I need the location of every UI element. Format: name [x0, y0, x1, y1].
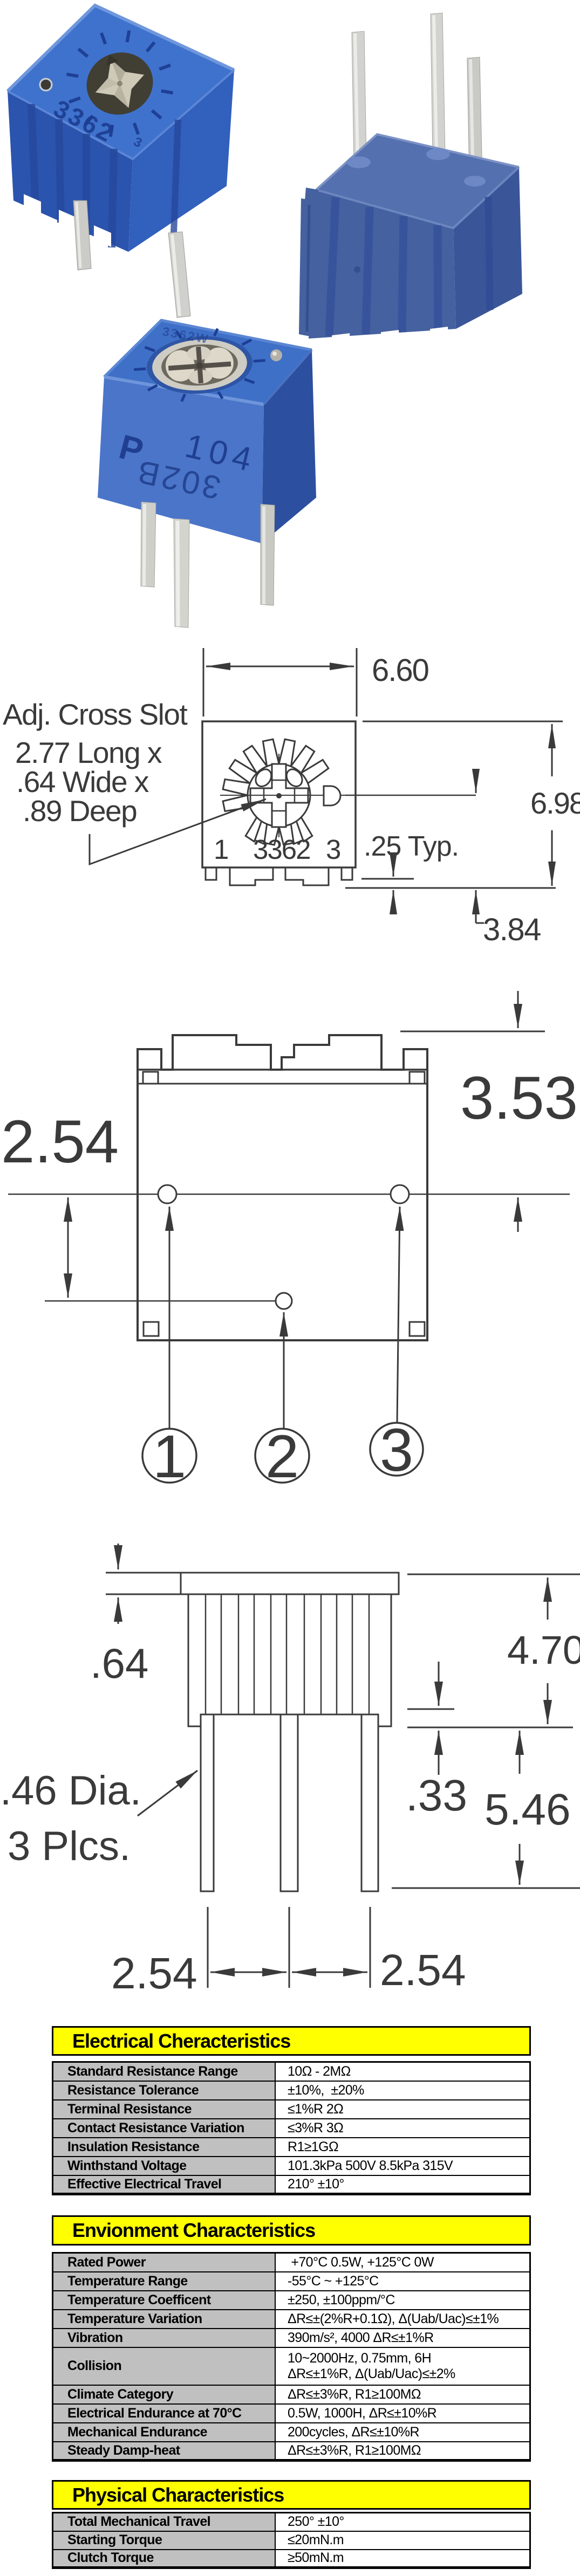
svg-text:4.70: 4.70 — [507, 1628, 580, 1672]
trimmer photo 3 pin 2 — [174, 519, 189, 628]
corner key top-left — [143, 1072, 158, 1084]
svg-text:.64 Wide x: .64 Wide x — [16, 765, 149, 798]
trimmer photo 1 pin right — [168, 232, 190, 318]
photo of three 3362 trimmer potentiometers — [0, 0, 580, 636]
trimmer photo 1 pilot hole — [41, 80, 51, 89]
pin hole 1 — [158, 1185, 176, 1203]
technical drawing: top view of 3362P trimmer — [0, 636, 580, 970]
svg-text:.89 Deep: .89 Deep — [23, 794, 137, 828]
trimmer photo 2 body — [309, 134, 522, 339]
body bottom reference — [407, 1727, 573, 1728]
trimmer photo 2 left edge tabs — [299, 188, 318, 338]
rotor center dot — [276, 793, 282, 798]
extension line right for 6.60 — [356, 648, 358, 717]
pointer down arrow — [475, 769, 477, 793]
leader from Adj. Cross Slot note — [90, 799, 266, 864]
corner key bottom-right — [410, 1322, 425, 1336]
table: Electrical Cheracteristics body — [52, 2061, 531, 2195]
trimmer photo 2 side ribs — [329, 197, 438, 336]
svg-text:.64: .64 — [90, 1640, 148, 1687]
.64 extension bottom — [106, 1594, 188, 1595]
ribs — [206, 1594, 369, 1714]
pin 1 — [201, 1714, 214, 1891]
top cap — [181, 1573, 399, 1594]
2.54 pitch arrows left — [210, 1972, 248, 1973]
leader pin 2 — [283, 1312, 285, 1429]
trimmer photo 3 body — [98, 320, 316, 543]
pin 2 — [281, 1714, 298, 1891]
table: Electrical Cheracteristics header — [52, 2026, 531, 2056]
balloon 1 — [142, 1429, 196, 1483]
rotor centerline vertical — [278, 754, 279, 837]
3.53 top arrow — [517, 991, 519, 1028]
svg-text:3 Plcs.: 3 Plcs. — [8, 1823, 131, 1869]
body with lip — [188, 1594, 391, 1726]
body outline with castellated top — [138, 1035, 427, 1340]
technical drawing: side view with pins — [0, 1531, 580, 2006]
svg-text:.33: .33 — [406, 1771, 467, 1820]
pin line lower — [45, 1300, 290, 1302]
trimmer photo 2 pins up — [352, 13, 482, 182]
trimmer photo 2 right-face groove — [488, 197, 490, 310]
pin bottom reference — [392, 1888, 580, 1889]
4.70 arrows — [547, 1578, 549, 1620]
leader pin 3 — [397, 1207, 400, 1422]
svg-text:3: 3 — [326, 834, 341, 865]
table: Physical Characteristics body — [52, 2512, 531, 2569]
table: Physical Characteristics header — [52, 2480, 531, 2510]
feet: right small foot — [342, 868, 352, 880]
leader pin 1 — [169, 1207, 170, 1429]
pin line upper — [8, 1194, 570, 1195]
svg-text:2.54: 2.54 — [1, 1108, 119, 1175]
rotor centerline horizontal — [220, 795, 476, 796]
feet: left wide foot — [230, 868, 273, 885]
balloon 3 — [370, 1423, 423, 1476]
balloon 2 — [255, 1429, 309, 1483]
extension line left for 6.60 — [203, 648, 204, 717]
rotor cross slot — [250, 764, 308, 827]
svg-text:2: 2 — [265, 1423, 299, 1490]
rotor ear right — [283, 766, 305, 789]
leader to pin 1 — [138, 1771, 197, 1816]
.25 arrows — [393, 862, 394, 877]
svg-text:.25 Typ.: .25 Typ. — [364, 831, 459, 862]
rib bottom reference — [407, 1709, 454, 1710]
.33 arrows — [438, 1662, 440, 1706]
rotor teeth — [223, 739, 329, 845]
pin pitch extension lines — [207, 1907, 209, 1988]
svg-text:1: 1 — [214, 834, 229, 865]
svg-text:6.98: 6.98 — [530, 786, 580, 820]
top extension line for 6.98 — [363, 721, 563, 722]
pin 3 — [361, 1714, 378, 1891]
2.54 vertical dimension arrows — [67, 1197, 69, 1247]
rotor ear left — [253, 766, 275, 789]
trimmer photo 3 metal ball — [270, 349, 282, 361]
wiper pointer cap — [324, 786, 340, 805]
trimmer photo 2 pin entry mounds — [347, 148, 486, 187]
trimmer photo 3 pin 3 — [261, 504, 275, 605]
6.98 dimension arrows — [551, 724, 553, 776]
svg-text:.46 Dia.: .46 Dia. — [0, 1768, 141, 1814]
trimmer photo 1 pin left — [73, 201, 91, 270]
trimmer photo 1 right-face groove — [174, 120, 178, 233]
pin hole 2 — [276, 1293, 292, 1309]
svg-text:1: 1 — [153, 1423, 186, 1490]
5.46 arrows — [519, 1731, 521, 1774]
rotor circle — [248, 764, 310, 826]
table: Envionment Characteristics body — [52, 2252, 531, 2462]
top extension line for 3.53 — [400, 1031, 545, 1032]
svg-text:3: 3 — [380, 1416, 413, 1484]
corner key bottom-left — [144, 1322, 159, 1336]
trimmer photo 1 rotor — [51, 15, 189, 153]
2.54 pitch arrows right — [292, 1972, 330, 1973]
svg-text:Adj. Cross Slot: Adj. Cross Slot — [3, 698, 187, 731]
pin hole 3 — [391, 1185, 409, 1203]
trimmer photo 2 bottom feet notches — [332, 327, 448, 344]
trimmer photo 1 bottom feet notches — [24, 194, 111, 247]
3.53 bottom arrow — [517, 1197, 519, 1232]
svg-text:3362: 3362 — [253, 834, 310, 865]
trimmer photo 3 rotor — [132, 326, 268, 405]
trimmer photo 2 mold dot — [354, 266, 360, 273]
seating plane line — [345, 887, 556, 889]
feet: right wide foot — [285, 868, 329, 885]
.64 extension top — [106, 1572, 181, 1574]
technical drawing: pin layout view — [0, 970, 580, 1504]
svg-text:2.54: 2.54 — [111, 1949, 197, 1998]
body top seam — [138, 1069, 427, 1071]
svg-text:2.54: 2.54 — [380, 1946, 466, 1995]
table: Envionment Characteristics header — [52, 2215, 531, 2246]
dimension line 6.60 — [206, 666, 280, 667]
cross slot hub ticks — [264, 780, 295, 811]
svg-text:6.60: 6.60 — [372, 653, 428, 688]
centerline across cross — [241, 795, 350, 796]
corner key top-right — [410, 1072, 425, 1084]
svg-text:3.53: 3.53 — [460, 1064, 578, 1132]
svg-text:3.84: 3.84 — [483, 912, 541, 947]
.64 arrows — [118, 1544, 119, 1569]
pointer reference line — [345, 795, 476, 796]
3.84 elbow and arrow — [475, 890, 477, 923]
trimmer photo 1 body top face — [8, 5, 234, 252]
body second seam — [138, 1083, 427, 1085]
4.70 top extension — [407, 1574, 580, 1575]
feet: left small foot — [206, 868, 216, 880]
trimmer photo 1 left-face ribs — [31, 104, 114, 247]
svg-text:5.46: 5.46 — [485, 1785, 571, 1834]
svg-text:2.77 Long x: 2.77 Long x — [15, 736, 162, 769]
body outline top view — [202, 721, 356, 867]
standoff reference line — [361, 878, 414, 880]
trimmer photo 3 pin 1 — [141, 502, 156, 587]
